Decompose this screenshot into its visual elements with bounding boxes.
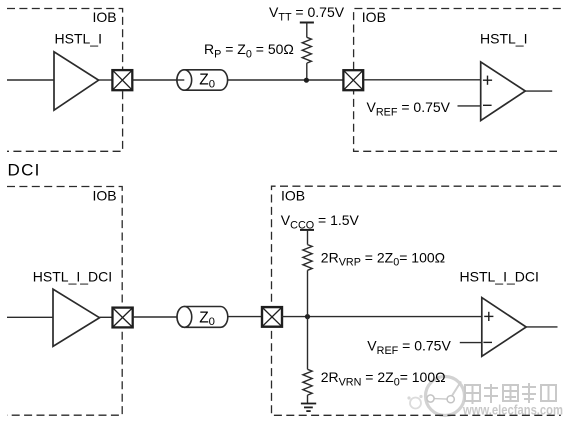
wire VREF to comparator - input [458, 105, 481, 107]
wire comparator output (top) [525, 90, 552, 92]
resistor 2RVRN zigzag [303, 369, 312, 395]
svg-text:VCCO = 1.5V: VCCO = 1.5V [281, 212, 360, 231]
svg-text:HSTL_I: HSTL_I [480, 31, 527, 47]
wire junction to resistor RVRN [307, 317, 309, 370]
resistor RP zigzag [302, 37, 311, 63]
svg-text:2RVRP = 2Z0= 100Ω: 2RVRP = 2Z0= 100Ω [321, 249, 445, 268]
wire transmission line to receiver pad [228, 79, 344, 81]
comparator U4 HSTL_I_DCI receiver [482, 298, 526, 357]
wire buffer to pad [99, 79, 113, 81]
IOB dashed box top-left (driver) [7, 9, 123, 152]
wire VREF to comparator - input (bottom) [460, 342, 482, 344]
IOB dashed box top-right (receiver) [354, 9, 561, 152]
transmission line T2 cylinder body [177, 307, 228, 328]
IOB dashed box bottom-right (DCI receiver) [272, 186, 561, 415]
pad P2 crossed box (receiver input) [343, 70, 363, 90]
watermark chinese glyph 2 [484, 384, 498, 403]
wire VTT bar to resistor RP [306, 23, 308, 38]
watermark chinese glyph 3 [503, 385, 518, 401]
minus sign (U4) [483, 341, 492, 343]
wire transmission line to DCI pad [228, 316, 262, 318]
svg-text:HSTL_I_DCI: HSTL_I_DCI [460, 269, 539, 285]
svg-text:HSTL_I_DCI: HSTL_I_DCI [33, 268, 112, 284]
minus sign (U2) [483, 104, 492, 106]
junction node (top) [304, 78, 309, 83]
pad P3 crossed box (DCI driver output) [113, 308, 133, 328]
buffer U1 HSTL_I driver [54, 52, 99, 110]
svg-text:IOB: IOB [362, 9, 386, 25]
resistor 2RVRP zigzag [303, 245, 312, 271]
VTT power rail bar [300, 22, 314, 24]
watermark chinese glyph 4 [522, 383, 536, 403]
svg-text:VTT = 0.75V: VTT = 0.75V [269, 4, 345, 23]
watermark chinese glyph 5 [541, 385, 556, 401]
wire resistor RVRN to ground [307, 395, 309, 403]
plus sign (U4) [484, 312, 493, 321]
plus sign (U2) [483, 76, 492, 85]
transmission line T2 left end ellipse [177, 307, 192, 328]
IOB dashed box bottom-left (DCI driver) [7, 187, 122, 416]
svg-text:IOB: IOB [93, 188, 117, 204]
svg-text:HSTL_I: HSTL_I [55, 31, 102, 47]
wire buffer to pad (bottom) [100, 316, 114, 318]
watermark chinese glyph 1 [465, 385, 480, 404]
transmission line T1 left end ellipse [177, 70, 192, 90]
svg-text:VREF = 0.75V: VREF = 0.75V [367, 338, 451, 357]
wire comparator output (bottom) [526, 326, 557, 328]
wire driver input (top) [7, 79, 54, 81]
svg-text:IOB: IOB [93, 9, 117, 25]
svg-text:RP = Z0 = 50Ω: RP = Z0 = 50Ω [204, 41, 294, 60]
buffer U3 HSTL_I_DCI driver [53, 289, 100, 346]
wire VCCO bar to resistor RVRP [307, 230, 309, 245]
VCCO power rail bar [300, 229, 314, 231]
wire pad to transmission line [132, 79, 178, 81]
junction node (bottom) [305, 314, 310, 319]
ground symbol [301, 404, 316, 412]
wire pad to comparator + input (bottom) [281, 316, 482, 318]
wire resistor RP to junction [306, 63, 308, 80]
transmission line T1 cylinder body [177, 70, 228, 90]
pad P4 crossed box (DCI receiver) [262, 307, 282, 327]
wire pad to comparator + input [363, 79, 481, 81]
svg-text:IOB: IOB [281, 187, 305, 203]
pad P1 crossed box (driver output) [112, 70, 132, 90]
wire resistor RVRP to junction [307, 270, 309, 316]
svg-text:VREF = 0.75V: VREF = 0.75V [367, 99, 451, 118]
wire stub into cylinder [177, 79, 184, 81]
svg-text:DCI: DCI [8, 161, 41, 180]
wire driver input (bottom) [7, 316, 53, 318]
wire pad to transmission line (bottom) [133, 316, 179, 318]
watermark logo circle [407, 377, 464, 416]
comparator U2 HSTL_I receiver [481, 62, 526, 121]
